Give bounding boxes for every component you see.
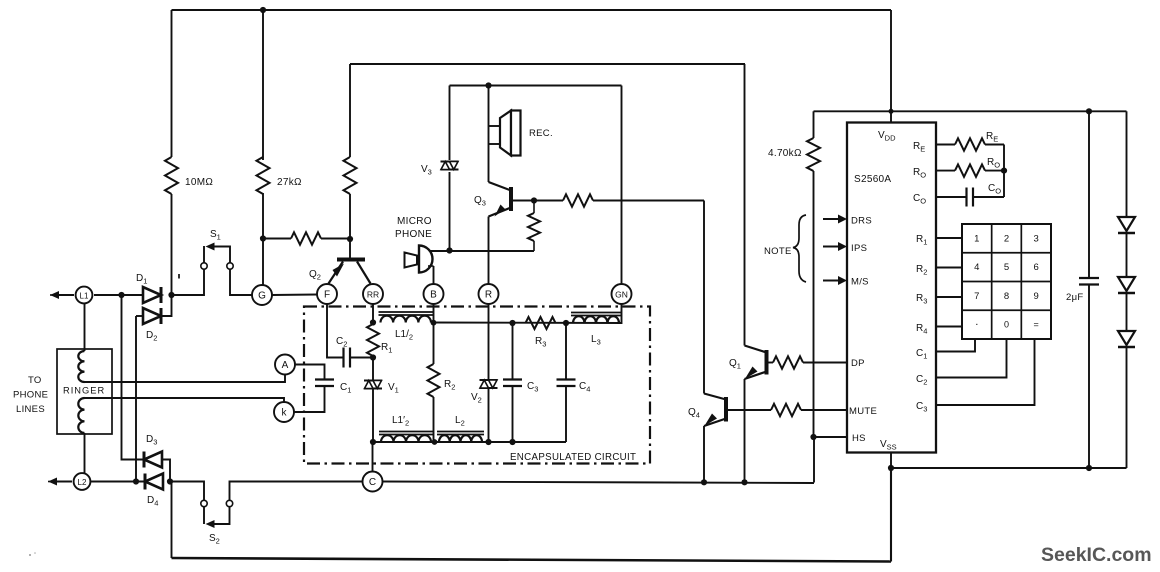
wire: Q4 collector riser (703, 201, 705, 394)
wire: REC speaker stubs (489, 125, 501, 127)
diode D4 (145, 474, 163, 490)
wire: S1 to G (230, 270, 252, 296)
svg-text:SeekIC.com: SeekIC.com (1041, 544, 1152, 566)
node RR (363, 284, 383, 304)
wire: D2 right stub (162, 295, 172, 316)
junction: G branch node (260, 235, 266, 241)
wire: rail 2 (Q2 collector feed) (350, 63, 745, 65)
transistor Q1 (765, 350, 769, 375)
wire: Q1 emitter drop (744, 379, 746, 482)
svg-text:IPS: IPS (851, 243, 867, 254)
wire: C3 column (936, 339, 1035, 405)
svg-text:7: 7 (974, 291, 979, 302)
resistor Q3 bias vertical (528, 213, 540, 241)
transistor Q4 (724, 397, 728, 422)
resistor R1 (367, 324, 379, 356)
svg-text:6: 6 (1034, 262, 1039, 273)
junction: bottom rail left (370, 439, 376, 445)
junction: VSS/2uF (1086, 465, 1092, 471)
varistor V2 (480, 379, 498, 381)
wire: 27k branch vertical upper (262, 10, 264, 160)
junction: C3 top (509, 320, 515, 326)
svg-text:27kΩ: 27kΩ (277, 177, 302, 188)
wire: top VDD rail (172, 9, 892, 11)
wire: R2 to bottom rail (433, 397, 435, 442)
svg-text:=: = (1034, 320, 1039, 330)
wire: left outer vertical (10M branch) (171, 10, 173, 157)
svg-text:DRS: DRS (851, 216, 872, 227)
wire: C stub up into box (372, 442, 374, 472)
encapsulated circuit dashed box (304, 307, 650, 464)
resistor 4.70k (813, 111, 815, 138)
junction: R3 right / C4 top (563, 320, 569, 326)
wire: 27k branch vertical lower (262, 193, 264, 286)
ringer coil bottom (78, 398, 84, 433)
capacitor C1 (315, 378, 334, 380)
wire: S2 to C (230, 482, 363, 501)
resistor Q3 base (to GN rail crossing) (534, 200, 563, 202)
diode D2 (136, 315, 143, 317)
wire: C2 to R1 node (350, 357, 373, 359)
junction: Q4 emitter node (701, 479, 707, 485)
node F (317, 284, 337, 304)
junction: HS node (810, 434, 816, 440)
resistor G-to-Q2 horizontal (263, 238, 291, 240)
wire: D3 right stub (162, 460, 170, 483)
wire: Q3 base to bias node (513, 200, 534, 202)
capacitor 2uF (1088, 111, 1090, 278)
wire: L1/2 to internal top rail (431, 322, 622, 325)
speckle (29, 554, 31, 556)
brace for NOTE (793, 215, 806, 282)
capacitor C4 (557, 378, 576, 380)
junction: top rail / 27k branch (260, 7, 266, 13)
junction: mic/V3 node (446, 247, 452, 253)
wire: VDD distribution rail (814, 110, 1127, 112)
node k (274, 402, 294, 422)
junction: ladder/L2 (133, 478, 139, 484)
wire: HS node to pin (814, 436, 848, 438)
wire: bottom return long (172, 558, 892, 562)
wire: L3 right to GN stub (619, 304, 622, 323)
wire: C4 drop (565, 323, 567, 380)
svg-text:DP: DP (851, 358, 865, 369)
wire: R3 row (936, 296, 962, 298)
resistor RO (936, 170, 955, 172)
junction: after D4 (167, 478, 173, 484)
wire: ringer top coil to A (85, 375, 286, 383)
wire: VSS bottom rail (891, 467, 1127, 469)
svg-text:3: 3 (1034, 233, 1039, 244)
wire: A into box to C1 (295, 365, 325, 380)
svg-text:PHONE: PHONE (395, 229, 432, 240)
svg-text:8: 8 (1004, 291, 1009, 302)
ringer coil top (78, 351, 84, 382)
node L1 (76, 287, 93, 304)
junction: RO node (1001, 168, 1007, 174)
wire: G to F (272, 294, 317, 297)
junction: after D1 (168, 292, 174, 298)
resistor R(Q2 base vertical) (344, 157, 357, 194)
capacitor C2 (342, 348, 344, 368)
microphone symbol (405, 253, 418, 268)
svg-text:4.70kΩ: 4.70kΩ (768, 148, 802, 159)
resistor RE (936, 144, 955, 146)
svg-text:L1: L1 (80, 292, 89, 301)
wire: chain to bottom (1126, 347, 1128, 468)
junction: R1 top / L1-2 left (370, 319, 376, 325)
resistor Q4-MUTE (728, 409, 771, 411)
wire: R2 row (936, 267, 962, 269)
junction: Q2 base node (347, 236, 353, 242)
resistor 27k (257, 157, 270, 194)
wire: GN riser (621, 86, 623, 285)
wire: RE/RO/CO tie (1003, 145, 1005, 198)
resistor Q1-DP (767, 362, 774, 364)
svg-text:S2560A: S2560A (854, 174, 891, 185)
junction: VSS/IC (888, 465, 894, 471)
wire: R4 row (936, 326, 962, 328)
node L2 (74, 473, 91, 490)
wire: chain seg1 (1126, 233, 1128, 277)
wire: L2 to D4 (90, 481, 145, 483)
wire: C4 bottom (565, 386, 567, 442)
transistor Q3 (509, 187, 513, 211)
capacitor C3 (503, 378, 522, 380)
svg-text:B: B (430, 290, 437, 301)
node GN (612, 284, 632, 304)
wire: bottom return left vertical (171, 482, 173, 559)
junction: B vertical / top rail (431, 320, 437, 326)
wire: B stub + R2 chain (433, 304, 435, 364)
svg-text:F: F (324, 290, 330, 301)
svg-text:1: 1 (974, 233, 979, 244)
wire: R1 row (936, 237, 962, 239)
svg-text:REC.: REC. (529, 128, 553, 139)
wire: dot to S1 (172, 269, 205, 295)
node A (275, 355, 295, 375)
svg-text:M/S: M/S (851, 277, 869, 288)
wire: RR stub (372, 304, 374, 323)
wire: mic bottom to B (433, 266, 435, 284)
wire: C3 drop (512, 323, 514, 380)
svg-text:C: C (369, 477, 376, 488)
wire: Q4 emitter drop (703, 426, 705, 482)
svg-text:A: A (282, 360, 289, 371)
transistor Q2 (337, 258, 365, 262)
node G (252, 285, 272, 305)
node B (424, 284, 444, 304)
wire: C2 column (936, 339, 1007, 378)
svg-text:·: · (975, 319, 979, 331)
junction: Q3 base node (531, 197, 537, 203)
resistor 10M (165, 157, 178, 194)
junction: L1/ringer/ladder (118, 292, 124, 298)
inductor L2 bottom (439, 435, 482, 442)
junction: between bottom coils (432, 439, 438, 445)
wire: L2 left arrow (55, 481, 72, 483)
wire: D4 to S2 (170, 482, 204, 501)
junction: VDD/IC riser (889, 109, 894, 114)
svg-text:ENCAPSULATED CIRCUIT: ENCAPSULATED CIRCUIT (510, 452, 636, 463)
wire: mic node horizontal (424, 250, 534, 252)
node C (363, 472, 383, 492)
wire: right diode chain vertical top (1126, 111, 1128, 217)
wire: rail 3 (450, 85, 622, 87)
inductor L1/2 top (381, 316, 432, 323)
inductor L1p2 bottom (381, 435, 431, 442)
svg-text:2: 2 (1004, 233, 1009, 244)
wire: L1 to D1 (94, 294, 143, 296)
wire: R vertical inside box (488, 304, 490, 380)
wire: C3 bottom (512, 386, 514, 442)
svg-text:LINES: LINES (16, 404, 45, 415)
junction: rail3 / REC branch (485, 82, 491, 88)
wire: ringer bottom coil to k (85, 398, 285, 404)
junction: VDD/2uF (1086, 108, 1092, 114)
svg-text:MICRO: MICRO (397, 216, 432, 227)
wire: C1 to k (294, 386, 325, 412)
switch S1 (201, 263, 207, 269)
wire: C1 column (936, 339, 975, 352)
wire: Q3 emitter to R vertical (488, 217, 490, 285)
capacitor CO (936, 196, 967, 198)
wire: ringer bottom to L2 (84, 433, 86, 474)
wire: HS riser (813, 437, 815, 483)
wire: Q2 base vertical lower (349, 194, 351, 258)
svg-text:5: 5 (1004, 262, 1009, 273)
diode chain D5 (1118, 217, 1135, 231)
diode chain D6 (1118, 277, 1135, 291)
wire: V1 to bottom rail (372, 389, 374, 443)
resistor R2 (428, 364, 440, 397)
varistor V3 (441, 161, 459, 163)
resistor R3 (526, 317, 556, 329)
speaker REC (500, 111, 511, 156)
svg-text:TO: TO (28, 375, 42, 386)
svg-text:2μF: 2μF (1066, 292, 1083, 303)
svg-text:PHONE: PHONE (13, 390, 48, 401)
svg-text:L2: L2 (78, 478, 87, 487)
wire: 4.70k to HS node (813, 171, 815, 437)
junction: Q1 emitter node (741, 479, 747, 485)
diode D3 (144, 452, 162, 468)
wire: bottom internal rail (373, 441, 566, 443)
wire: D2 left terminal drop to L2 line (135, 316, 137, 482)
diode D1 (143, 287, 161, 303)
junction: R1 bottom (370, 354, 376, 360)
wire: Q1 collector riser (744, 64, 746, 346)
svg-text:GN: GN (615, 290, 628, 300)
wire: IC bottom stub (890, 453, 892, 469)
svg-text:R: R (485, 290, 492, 301)
wire: V2 to bottom rail (488, 388, 490, 442)
op-amp/IC U1 S2560A box (847, 123, 936, 453)
varistor V1 (372, 358, 374, 381)
svg-text:HS: HS (852, 433, 866, 444)
wire: IC VDD riser (890, 10, 892, 123)
node R (479, 284, 499, 304)
keypad grid (962, 224, 1051, 339)
svg-text:RINGER: RINGER (63, 386, 105, 396)
wire: chain seg2 (1126, 293, 1128, 331)
svg-text:10MΩ: 10MΩ (185, 177, 213, 188)
junction: C3 bottom (509, 439, 515, 445)
wire: Q2 base resistor vertical top (349, 64, 351, 157)
wire: F stub into box (327, 304, 344, 358)
wire: C to Q1/Q4 emitters and HS riser (383, 482, 814, 484)
diode chain D7 (1118, 331, 1135, 345)
svg-text:0: 0 (1004, 320, 1009, 330)
junction: R chain bottom (485, 439, 491, 445)
wire: REC/Q3 collector vertical (488, 86, 490, 183)
wire: V3 branch vertical (449, 86, 451, 161)
svg-text:MUTE: MUTE (849, 406, 877, 417)
wire: bottom return right vertical (890, 468, 892, 562)
svg-text:G: G (258, 291, 266, 302)
wire: L1 to ringer (84, 303, 86, 351)
svg-text:9: 9 (1034, 291, 1039, 302)
svg-text:RR: RR (367, 290, 379, 300)
switch S2 (201, 500, 207, 506)
wire: L1 line left arrow (57, 294, 74, 296)
svg-text:4: 4 (974, 262, 979, 273)
inductor L3 (573, 316, 619, 323)
svg-text:NOTE: NOTE (764, 246, 792, 257)
ringer box (57, 349, 112, 434)
wire: ladder vertical (D3 branch) (122, 295, 145, 460)
